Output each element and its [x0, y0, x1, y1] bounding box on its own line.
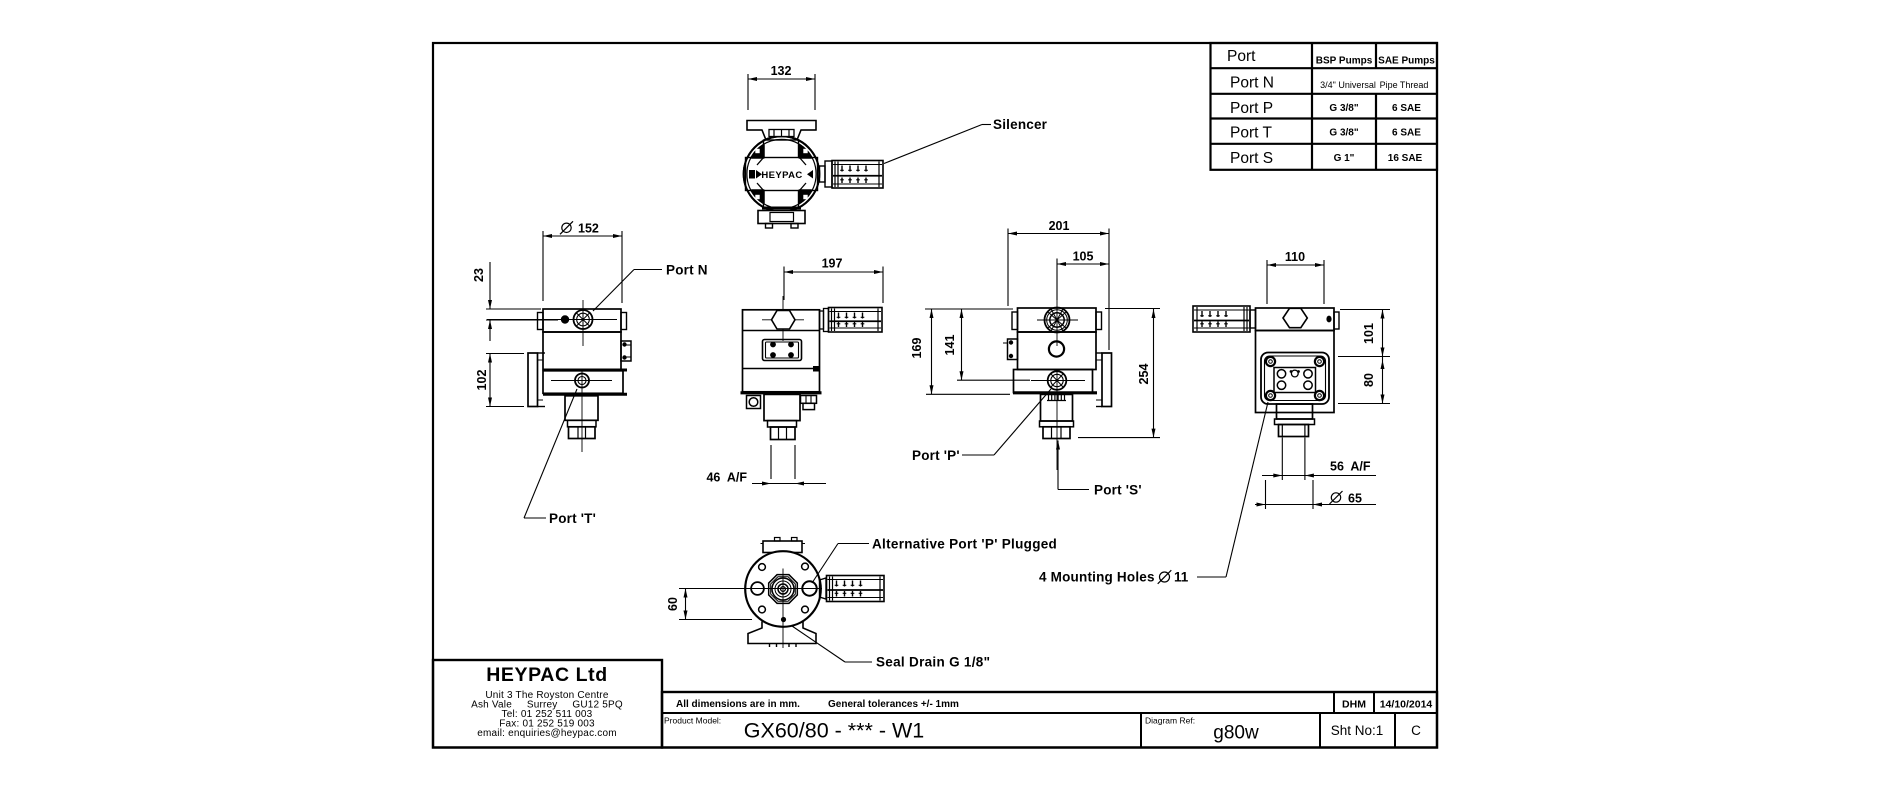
bottom view: corner bolt holes [759, 563, 809, 613]
svg-text:HEYPAC: HEYPAC [761, 170, 802, 181]
svg-text:197: 197 [822, 257, 843, 271]
dimension 141 [943, 309, 1030, 380]
svg-text:Port 'P': Port 'P' [912, 448, 960, 463]
title block: revision cell [1395, 713, 1421, 748]
side view D: lower body [1014, 370, 1093, 393]
label Port T leader [524, 389, 596, 526]
dimension 101 [1338, 310, 1390, 357]
side view B: top cap [538, 309, 627, 332]
svg-text:SAE Pumps: SAE Pumps [1378, 56, 1435, 67]
side view B: main body [543, 332, 621, 370]
rear view E: body [1256, 331, 1335, 413]
side view B: alternative port boss [621, 341, 631, 361]
side view D: big threaded port [1045, 308, 1070, 333]
svg-text:Port 'S': Port 'S' [1094, 483, 1142, 498]
svg-text:DHM: DHM [1342, 699, 1366, 711]
front view C: left foot tab [747, 396, 761, 409]
svg-text:11: 11 [1174, 570, 1189, 585]
dimension 105 [1057, 229, 1109, 351]
top view: HEYPAC name plate [749, 170, 813, 181]
svg-text:141: 141 [943, 335, 957, 356]
label Seal Drain leader [792, 626, 990, 670]
side view D: port N centerlines [1037, 296, 1078, 346]
svg-text:email: enquiries@heypac.com: email: enquiries@heypac.com [477, 728, 617, 739]
svg-text:Pipe Thread: Pipe Thread [1380, 80, 1429, 90]
svg-text:6 SAE: 6 SAE [1392, 128, 1421, 139]
side view B: port N centerlines [487, 300, 617, 346]
front view C: centerline [782, 296, 784, 341]
svg-text:254: 254 [1137, 364, 1151, 385]
svg-text:105: 105 [1073, 250, 1094, 264]
svg-text:Product Model:: Product Model: [664, 716, 721, 726]
svg-text:6 SAE: 6 SAE [1392, 103, 1421, 114]
svg-text:23: 23 [472, 268, 486, 282]
svg-text:56 A/F: 56 A/F [1330, 460, 1371, 474]
top view: silencer [832, 161, 883, 189]
bottom view: top flange [761, 538, 806, 553]
dimension 254 [1078, 309, 1160, 438]
front view C: pedestal and nut [764, 394, 800, 439]
rear view E: port face center block [1274, 368, 1316, 393]
top view: pump body top flange [747, 121, 816, 141]
svg-text:16 SAE: 16 SAE [1388, 153, 1423, 164]
svg-text:G 1": G 1" [1334, 153, 1355, 164]
bottom view: seal drain hole [781, 617, 786, 622]
bottom view: centerlines [679, 569, 822, 649]
svg-text:Port N: Port N [1230, 75, 1274, 92]
top view: cross rib horizontal [746, 158, 818, 191]
svg-text:GX60/80 - *** - W1: GX60/80 - *** - W1 [744, 719, 924, 743]
title block: product model cell [664, 716, 924, 743]
front view C: silencer [829, 308, 883, 333]
front view C: silencer connector [820, 309, 829, 332]
label 4 mounting holes leader [1039, 402, 1268, 585]
svg-text:60: 60 [666, 597, 680, 611]
svg-text:152: 152 [578, 222, 599, 236]
dimension 56 A/F [1262, 438, 1376, 481]
side view D: port P centerline [1031, 369, 1085, 470]
side view D: breather circle [1049, 341, 1064, 356]
top view: pump circular housing rings [744, 136, 820, 212]
svg-text:G 3/8": G 3/8" [1329, 103, 1358, 114]
dimension 110 [1267, 250, 1324, 304]
rear view E: hex plug [1283, 308, 1307, 327]
bottom view: right alternative port [802, 581, 816, 595]
svg-text:46 A/F: 46 A/F [706, 471, 747, 485]
top view: bottom neck heavy line [762, 207, 801, 210]
side view B: lower body [543, 371, 623, 394]
svg-text:Port P: Port P [1230, 100, 1273, 117]
title block: DHM cell [1334, 692, 1432, 713]
bottom view: circular housing [745, 551, 821, 627]
rear view E: side dot [1326, 316, 1331, 323]
dimension 80 [1338, 357, 1390, 404]
bottom view: foot flange [748, 622, 816, 648]
svg-text:General tolerances +/- 1mm: General tolerances +/- 1mm [828, 699, 959, 710]
svg-text:201: 201 [1049, 219, 1070, 233]
svg-text:Diagram Ref:: Diagram Ref: [1145, 716, 1195, 726]
title block: tolerances row [662, 692, 1437, 748]
svg-text:4 Mounting Holes: 4 Mounting Holes [1039, 570, 1155, 585]
label Silencer leader [884, 117, 1048, 164]
svg-text:80: 80 [1362, 373, 1376, 387]
svg-text:110: 110 [1285, 250, 1305, 264]
front view C: body [743, 310, 820, 392]
label Alternative Port P leader [812, 537, 1057, 584]
title block: HEYPAC company box [433, 660, 662, 748]
rear view E: pedestal and nut [1275, 404, 1315, 437]
bottom view: left port [751, 582, 764, 595]
svg-text:65: 65 [1348, 492, 1362, 506]
svg-text:Silencer: Silencer [993, 117, 1048, 132]
side view B: port T hole [575, 374, 589, 388]
svg-text:Alternative Port 'P' Plugged: Alternative Port 'P' Plugged [872, 537, 1057, 552]
label Port S leader [1056, 441, 1142, 498]
top view: corner bolt wedges [752, 145, 811, 203]
dimension 132 [748, 64, 815, 110]
rear view E: top cap [1256, 308, 1340, 331]
front view C: hex plug [762, 311, 804, 330]
dimension 46 A/F [706, 445, 826, 486]
svg-text:g80w: g80w [1213, 723, 1259, 744]
svg-text:C: C [1411, 723, 1421, 738]
svg-text:G 3/8": G 3/8" [1329, 128, 1358, 139]
dimension 23 [472, 262, 558, 341]
svg-text:Port T: Port T [1230, 125, 1272, 142]
rear view E: mounting holes [1266, 357, 1324, 400]
side view B: port N threaded hole [574, 310, 593, 329]
svg-text:101: 101 [1362, 323, 1376, 344]
ports table [1211, 43, 1438, 170]
dimension 169 [910, 309, 1013, 394]
title block: diagram ref cell [1141, 713, 1259, 748]
label Port N leader [593, 263, 708, 312]
side view B: mounting flange plate [528, 353, 545, 407]
dimension dia 152 [543, 221, 622, 303]
svg-text:102: 102 [475, 370, 489, 391]
side view D: port P hole [1048, 371, 1067, 390]
side view B: heavy joint line [543, 369, 627, 372]
top view: pump circular housing fill [744, 136, 820, 212]
side view B: shaft pedestal [565, 396, 598, 439]
top view: cross rib vertical [764, 140, 799, 208]
drawing frame border [433, 43, 1437, 748]
title block: sheet no cell [1320, 713, 1383, 748]
front view C: heavy base line [741, 391, 822, 394]
svg-text:Port 'T': Port 'T' [549, 511, 596, 526]
dimension 102 [475, 354, 524, 407]
side view D: heavy base line [1013, 391, 1097, 394]
dimension 60 [666, 589, 752, 620]
svg-text:Port S: Port S [1230, 150, 1273, 167]
svg-text:Port N: Port N [666, 263, 708, 278]
top view: flange gasket strip [769, 130, 794, 137]
dimension 201 [1008, 219, 1109, 306]
bottom view: silencer connector [820, 578, 827, 599]
side view D: mounting flange plate right [1096, 353, 1112, 407]
svg-text:Sht No:1: Sht No:1 [1331, 723, 1384, 738]
front view C: port face block [763, 340, 802, 361]
side view D: pedestal thread and nut [1040, 394, 1074, 438]
rear view E: silencer [1193, 306, 1256, 332]
side view D: top cap [1012, 308, 1102, 332]
side view B: locating dot [561, 315, 569, 323]
svg-text:BSP Pumps: BSP Pumps [1316, 56, 1373, 67]
svg-text:169: 169 [910, 338, 924, 359]
svg-text:All dimensions are in mm.: All dimensions are in mm. [676, 699, 800, 710]
side view B: port T centerline [551, 369, 612, 452]
label Port P leader [912, 389, 1051, 463]
side view D: main body [1018, 332, 1097, 370]
top view: silencer connector [820, 161, 833, 187]
svg-text:3/4" Universal: 3/4" Universal [1320, 80, 1376, 90]
side view B: heavy base line [543, 393, 627, 396]
front view C: right foot tab [801, 396, 817, 410]
svg-text:Seal Drain G 1/8": Seal Drain G 1/8" [876, 655, 990, 670]
bottom view: center hub [769, 575, 798, 604]
svg-text:14/10/2014: 14/10/2014 [1380, 699, 1433, 711]
bottom view: silencer [827, 576, 885, 602]
dimension dia 65 [1255, 480, 1376, 509]
svg-text:HEYPAC Ltd: HEYPAC Ltd [486, 664, 608, 686]
svg-text:132: 132 [771, 64, 792, 78]
rear view E: mounting plate [1261, 353, 1329, 405]
dimension 197 [784, 257, 883, 304]
top view: bottom flange [758, 211, 805, 229]
svg-text:Port: Port [1227, 48, 1256, 65]
side view D: alternative port boss left [1003, 339, 1018, 360]
